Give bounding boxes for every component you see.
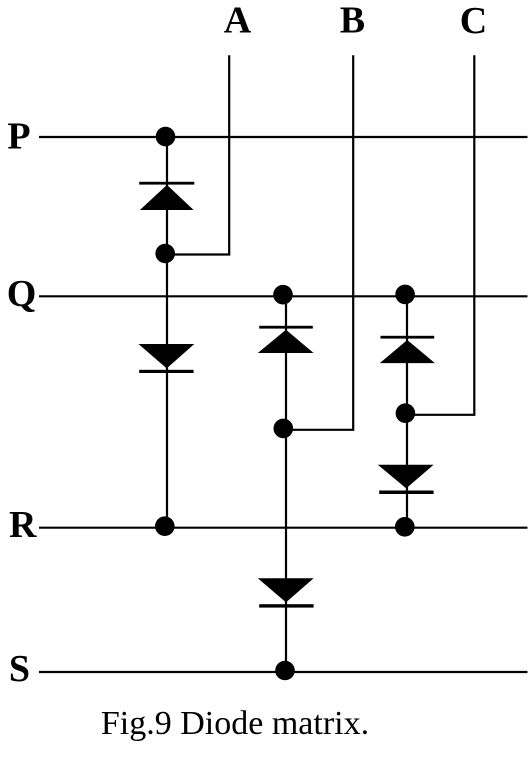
svg-text:Fig.9 Diode matrix.: Fig.9 Diode matrix. [101,705,369,742]
svg-text:Q: Q [7,273,37,315]
svg-text:C: C [460,0,487,42]
svg-text:B: B [340,0,365,42]
svg-text:R: R [9,504,37,546]
svg-text:S: S [9,648,30,690]
svg-text:A: A [224,0,252,42]
svg-text:P: P [7,116,30,158]
